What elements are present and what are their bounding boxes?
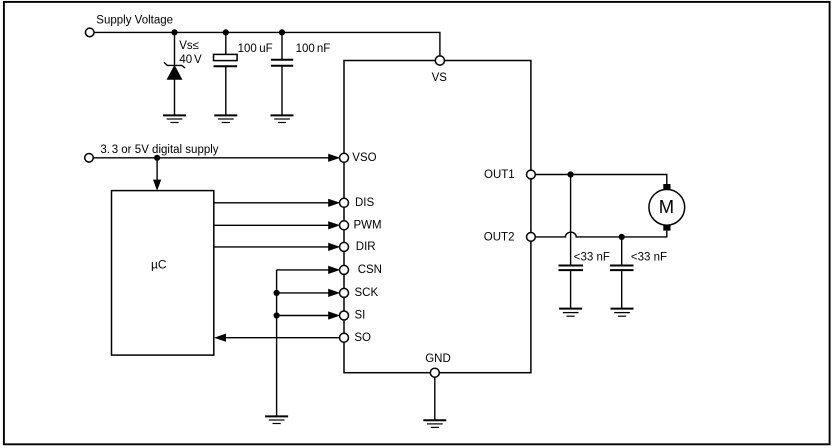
arrow CSN bbox=[328, 266, 340, 274]
capacitor C2 100nF bbox=[271, 32, 293, 115]
pin GND bbox=[434, 377, 436, 420]
arrow into uC top bbox=[153, 180, 161, 191]
microcontroller uC box bbox=[112, 191, 214, 356]
wire supply rail top bbox=[94, 32, 440, 56]
ground C3 bbox=[559, 309, 582, 317]
svg-text:M: M bbox=[659, 196, 674, 217]
svg-text:µC: µC bbox=[151, 258, 167, 272]
arrow PWM bbox=[328, 221, 340, 229]
wire DIS bbox=[214, 202, 329, 204]
node junction 100nF bbox=[279, 29, 285, 35]
pin SI bbox=[340, 311, 349, 320]
svg-text:40V: 40V bbox=[179, 54, 202, 66]
terminal digital supply bbox=[85, 154, 94, 163]
wire SCK bbox=[277, 292, 329, 294]
svg-text:OUT1: OUT1 bbox=[484, 169, 515, 181]
arrow DIS bbox=[328, 199, 340, 207]
svg-text:<33 nF: <33 nF bbox=[631, 252, 667, 264]
pin VSO bbox=[340, 153, 349, 162]
capacitor C4 <33nF bbox=[610, 237, 634, 309]
arrow SO into uC bbox=[214, 334, 226, 342]
svg-text:CSN: CSN bbox=[358, 264, 382, 276]
wire down to uC bbox=[156, 158, 158, 181]
svg-text:100nF: 100nF bbox=[296, 43, 331, 55]
wire SO bbox=[225, 337, 340, 339]
node junction SCK bbox=[274, 290, 280, 296]
pin SCK bbox=[340, 288, 349, 297]
node junction OUT1 cap bbox=[568, 171, 574, 177]
wire PWM bbox=[214, 224, 329, 226]
svg-text:Supply Voltage: Supply Voltage bbox=[96, 15, 173, 27]
pin CSN bbox=[340, 265, 349, 274]
pin OUT1 bbox=[527, 170, 536, 179]
capacitor C1 100uF bbox=[214, 32, 238, 115]
svg-text:SO: SO bbox=[354, 332, 371, 344]
svg-text:3.3 or5V digital supply: 3.3 or5V digital supply bbox=[100, 144, 218, 156]
svg-text:VS: VS bbox=[432, 72, 448, 84]
pin DIS bbox=[340, 198, 349, 207]
svg-text:100uF: 100uF bbox=[238, 43, 273, 55]
node junction zener bbox=[171, 29, 177, 35]
pin SO bbox=[340, 333, 349, 342]
node junction 100uF bbox=[223, 29, 229, 35]
pin PWM bbox=[340, 221, 349, 230]
svg-text:OUT2: OUT2 bbox=[484, 231, 515, 243]
ground C1 bbox=[214, 115, 237, 122]
ground C2 bbox=[271, 115, 294, 122]
ground zener bbox=[163, 115, 186, 122]
arrow into VSO bbox=[328, 154, 340, 162]
ground C4 bbox=[611, 309, 634, 317]
svg-text:<33 nF: <33 nF bbox=[574, 252, 610, 264]
svg-text:DIR: DIR bbox=[356, 241, 376, 253]
motor M1 bbox=[649, 184, 685, 231]
IC U1 box bbox=[344, 61, 531, 373]
ground GND pin bbox=[423, 420, 446, 427]
arrow SCK bbox=[328, 289, 340, 297]
pin DIR bbox=[340, 242, 349, 251]
wire OUT1 bbox=[535, 175, 666, 185]
svg-text:VSO: VSO bbox=[352, 152, 376, 164]
wire digital supply bbox=[93, 157, 329, 159]
wire SI bbox=[277, 315, 329, 317]
svg-text:DIS: DIS bbox=[355, 197, 375, 209]
node junction OUT2 cap bbox=[619, 234, 625, 240]
wire DIR bbox=[214, 246, 329, 248]
wire SPI vertical bbox=[276, 270, 278, 416]
capacitor C3 <33nF bbox=[559, 175, 584, 309]
zener diode Vs<40V bbox=[164, 32, 185, 115]
node junction SI bbox=[274, 312, 280, 318]
svg-text:SCK: SCK bbox=[355, 287, 379, 299]
wire OUT2 with hop bbox=[535, 231, 666, 237]
svg-text:SI: SI bbox=[355, 310, 366, 322]
wire CSN bbox=[277, 269, 329, 271]
arrow SI bbox=[328, 311, 340, 319]
svg-text:PWM: PWM bbox=[354, 220, 382, 232]
node junction uC supply bbox=[154, 155, 160, 161]
svg-text:GND: GND bbox=[425, 353, 451, 365]
svg-text:Vs≤: Vs≤ bbox=[179, 40, 199, 52]
pin OUT2 bbox=[527, 233, 536, 242]
ground SPI bbox=[265, 416, 288, 423]
pin VS bbox=[435, 56, 444, 65]
terminal Supply Voltage bbox=[85, 28, 94, 37]
arrow DIR bbox=[328, 243, 340, 251]
